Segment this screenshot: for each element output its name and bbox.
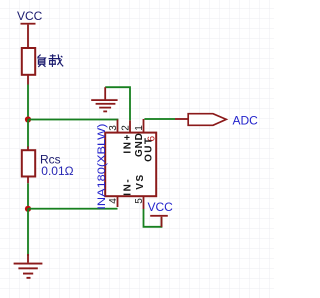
svg-text:VCC: VCC	[17, 9, 43, 23]
wire node A to Rcs	[27, 120, 29, 147]
svg-text:ADC: ADC	[233, 113, 259, 127]
junction node A	[25, 116, 31, 122]
svg-text:IN-: IN-	[122, 178, 133, 196]
wire U1 pin 2 to ground	[105, 87, 130, 120]
wire node A to U1 pin 3	[28, 119, 118, 121]
svg-text:4: 4	[108, 198, 119, 204]
pin 5 VS	[134, 173, 146, 209]
wire node B to ground	[27, 209, 29, 256]
wire R1 to node A	[27, 85, 29, 120]
label 负载 (load)	[37, 54, 63, 67]
svg-text:INA180(XBLW): INA180(XBLW)	[96, 124, 108, 210]
power flag VCC (bottom)	[148, 200, 174, 227]
svg-text:0.01Ω: 0.01Ω	[41, 164, 73, 178]
svg-text:1: 1	[134, 125, 145, 131]
wire Rcs to node B	[27, 183, 29, 208]
power flag VCC (top)	[17, 9, 43, 24]
svg-text:2: 2	[120, 125, 131, 131]
svg-text:IN+: IN+	[122, 133, 133, 154]
svg-text:VS: VS	[135, 173, 146, 190]
pin 4 IN-	[108, 178, 134, 207]
junction node B	[25, 206, 31, 212]
ground (bottom left)	[14, 254, 43, 279]
pin 1 OUT	[134, 119, 155, 162]
resistor Rcs	[22, 146, 35, 183]
svg-text:OUT: OUT	[143, 137, 154, 162]
pin 2 GND	[120, 120, 145, 157]
net flag ADC	[188, 114, 226, 126]
pin 3 IN+	[108, 120, 134, 154]
wire node B to U1 pin 4	[28, 208, 118, 210]
svg-text:3: 3	[108, 125, 119, 131]
wire U1 pin 5 to VCC	[144, 209, 162, 227]
resistor R1 (load)	[22, 48, 35, 85]
svg-text:VCC: VCC	[148, 200, 174, 214]
op-amp U1 INA180 body	[105, 133, 156, 197]
svg-text:5: 5	[134, 198, 145, 204]
wire VCC to R1	[27, 25, 29, 48]
ground (top, near U1)	[91, 87, 117, 112]
wire U1 pin 1 to ADC flag	[144, 118, 188, 120]
